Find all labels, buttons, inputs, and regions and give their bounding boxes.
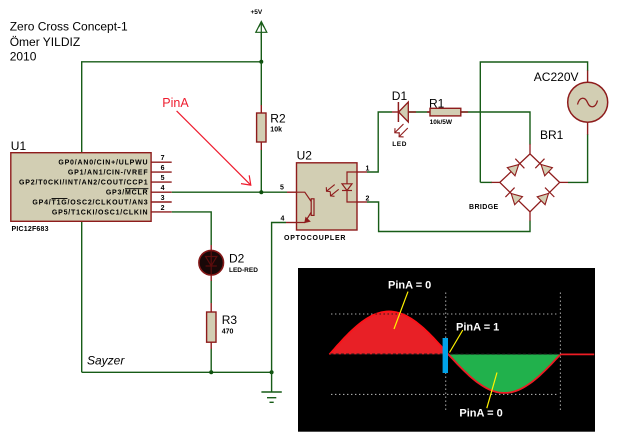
wire U1 pin4 to node A to U2 pin5 — [172, 191, 287, 193]
svg-text:+5V: +5V — [251, 9, 263, 16]
arrow PinA callout — [177, 111, 251, 185]
U1 pin 6 GP1 — [68, 165, 172, 177]
svg-text:BR1: BR1 — [540, 128, 564, 142]
scope screenshot panel — [298, 268, 595, 432]
wire U1 pin2 to D2 column — [172, 212, 212, 245]
U1 pin 7 GP0 — [58, 155, 171, 167]
svg-text:1: 1 — [366, 165, 370, 172]
node junction at +5V rail — [259, 60, 263, 64]
scope yellow callout to blue marker — [450, 330, 463, 353]
wire U2 pin2 to bridge bottom corner — [367, 202, 530, 232]
LED D2 — [199, 245, 258, 281]
svg-text:10k/5W: 10k/5W — [430, 119, 453, 126]
scope red positive half-sine fill — [329, 311, 448, 354]
wire R1 to bridge top corner column — [461, 112, 530, 145]
chip U1 PIC12F683 — [11, 139, 151, 233]
U1 pin 5 GP2 — [19, 175, 172, 187]
svg-text:GP0/AN0/CIN+/ULPWU: GP0/AN0/CIN+/ULPWU — [58, 160, 148, 167]
AC source AC220V — [534, 70, 608, 135]
wire D1 to R1 — [409, 111, 430, 113]
svg-text:PinA: PinA — [162, 96, 189, 110]
svg-text:R1: R1 — [429, 96, 445, 110]
svg-text:R3: R3 — [222, 313, 238, 327]
wire top-right rail AC source to bridge-left column — [480, 62, 587, 182]
wire top-left rail from U1 column to +5V column — [82, 62, 262, 153]
svg-text:OPTOCOUPLER: OPTOCOUPLER — [284, 235, 346, 242]
wire U2 pin4 down to ground rail — [272, 223, 286, 373]
scope dotted grid left vertical — [445, 293, 447, 411]
scope green negative half-sine fill — [448, 354, 560, 393]
junction dot at D2/R3 column on ground rail — [209, 370, 213, 374]
wire D2 to R3 — [210, 280, 212, 303]
U2 internal LED — [342, 172, 357, 202]
svg-text:470: 470 — [222, 329, 234, 336]
diode D lower-left (B to L) — [505, 188, 522, 205]
scope blue zero-cross marker — [443, 338, 448, 373]
power +5V symbol — [256, 22, 267, 41]
wire U2 pin1 up to D1 row — [367, 112, 392, 172]
svg-text:Ömer YILDIZ: Ömer YILDIZ — [10, 35, 80, 49]
wire U1 bottom VSS column down to ground rail — [81, 221, 83, 372]
svg-text:2010: 2010 — [10, 49, 37, 63]
wire bottom ground rail — [82, 371, 272, 373]
ground symbol — [261, 372, 281, 402]
svg-text:R2: R2 — [270, 111, 286, 125]
svg-text:LED: LED — [392, 141, 407, 148]
U2 pin 5 stub — [280, 185, 297, 193]
U2 pin 4 stub — [281, 216, 297, 223]
svg-text:GP3/MCLR: GP3/MCLR — [106, 190, 149, 197]
U2 pin 2 stub — [357, 195, 370, 202]
LED D1 — [392, 89, 416, 148]
svg-text:AC220V: AC220V — [534, 70, 579, 84]
U2 internal phototransistor — [297, 192, 315, 222]
scope dark dashed zero line over waves — [331, 353, 561, 355]
svg-text:D1: D1 — [392, 89, 408, 103]
svg-text:D2: D2 — [229, 252, 245, 266]
svg-text:2: 2 — [366, 195, 370, 202]
diode D upper-left (L to T) — [507, 159, 524, 176]
U1 pin 2 GP5 — [52, 205, 172, 217]
scope yellow callout to red hump — [394, 292, 408, 329]
scope dark dotted overlay where upper grid crosses red hump — [376, 313, 403, 315]
svg-text:PinA = 0: PinA = 0 — [459, 408, 502, 420]
scope dotted grid lower horizontal — [331, 393, 558, 395]
U2 light arrows — [326, 185, 338, 197]
svg-text:PIC12F683: PIC12F683 — [12, 226, 49, 233]
wire +5V column down to R2 — [260, 62, 262, 106]
svg-text:PinA = 0: PinA = 0 — [388, 280, 431, 292]
svg-text:Sayzer: Sayzer — [87, 354, 125, 368]
scope red baseline segment right — [560, 353, 594, 355]
svg-text:PinA = 1: PinA = 1 — [456, 322, 499, 334]
svg-text:4: 4 — [161, 185, 165, 192]
scope red positive half-sine outline — [329, 311, 448, 354]
svg-text:3: 3 — [161, 195, 165, 202]
svg-text:U2: U2 — [297, 149, 313, 163]
U2 pin 1 stub — [357, 165, 370, 172]
svg-text:7: 7 — [161, 155, 165, 162]
wire bridge right corner to AC source bottom — [568, 134, 588, 182]
svg-text:GP4/T1G/OSC2/CLKOUT/AN3: GP4/T1G/OSC2/CLKOUT/AN3 — [32, 200, 148, 207]
scope green negative half-sine outline — [448, 354, 560, 393]
svg-text:5: 5 — [280, 185, 284, 192]
svg-text:BRIDGE: BRIDGE — [469, 204, 499, 211]
svg-text:4: 4 — [281, 216, 285, 223]
svg-text:6: 6 — [161, 165, 165, 172]
diode D lower-right (B to R) — [537, 188, 554, 205]
svg-text:U1: U1 — [11, 139, 27, 153]
resistor R1 — [427, 96, 468, 126]
bridge rectifier BR1 — [469, 128, 568, 221]
svg-text:GP2/T0CKI/INT/AN2/COUT/CCP1: GP2/T0CKI/INT/AN2/COUT/CCP1 — [19, 180, 148, 187]
svg-text:GP1/AN1/CIN-/VREF: GP1/AN1/CIN-/VREF — [68, 170, 149, 177]
wire R3 bottom to ground rail — [210, 349, 212, 373]
scope dotted grid upper horizontal — [331, 313, 558, 315]
svg-text:2: 2 — [161, 205, 165, 212]
svg-text:Zero Cross Concept-1: Zero Cross Concept-1 — [10, 20, 128, 34]
resistor R2 — [257, 105, 286, 150]
junction dot at U2 pin4 column on ground rail — [270, 370, 274, 374]
wire +5V stem down to rail junction — [260, 32, 262, 62]
resistor R3 — [207, 303, 238, 349]
scope dotted grid right vertical — [559, 293, 561, 411]
wire bridge left corner stub — [480, 181, 492, 183]
optocoupler U2 — [284, 149, 357, 243]
title text block — [10, 20, 128, 64]
svg-text:LED-RED: LED-RED — [229, 267, 258, 274]
scope yellow callout to green hump — [487, 373, 497, 409]
node A junction dot — [259, 190, 263, 194]
svg-text:GP5/T1CKI/OSC1/CLKIN: GP5/T1CKI/OSC1/CLKIN — [52, 209, 149, 216]
U1 pin 4 GP3/MCLR — [106, 185, 172, 197]
diode D upper-right (R to T) — [535, 159, 552, 176]
U1 pin 3 GP4 — [32, 195, 171, 207]
wire R2 bottom to node A — [260, 150, 262, 193]
svg-text:10k: 10k — [270, 127, 282, 134]
svg-text:5: 5 — [161, 175, 165, 182]
